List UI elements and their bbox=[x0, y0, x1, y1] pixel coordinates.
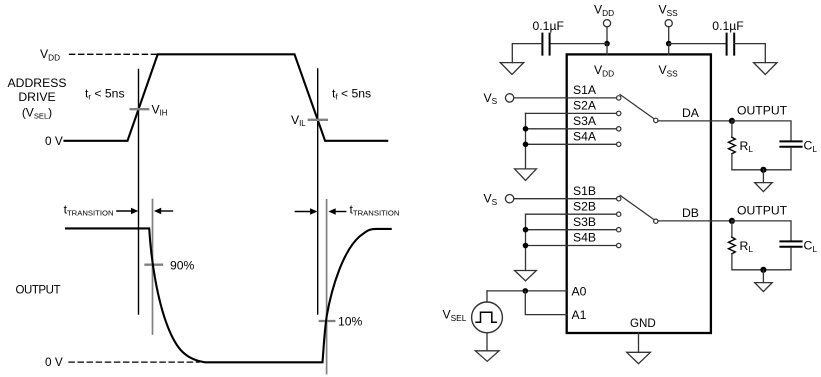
node VIL tick bbox=[309, 119, 327, 121]
svg-text:tTRANSITION: tTRANSITION bbox=[350, 202, 400, 217]
svg-text:90%: 90% bbox=[170, 258, 195, 272]
wire output ground lead B bbox=[762, 270, 764, 283]
wire right cap right lead bbox=[734, 44, 765, 63]
wire left cap left lead bbox=[512, 44, 542, 63]
node junction S3A bus bbox=[523, 126, 529, 132]
source VSEL pulse glyph bbox=[476, 312, 496, 322]
svg-text:S1A: S1A bbox=[573, 83, 597, 97]
svg-text:0 V: 0 V bbox=[45, 134, 63, 148]
svg-text:DRIVE: DRIVE bbox=[18, 90, 55, 104]
wire left timing marker line bbox=[138, 70, 140, 315]
source VSEL circle bbox=[472, 302, 503, 333]
svg-text:S4A: S4A bbox=[573, 130, 597, 144]
op-amp U1 multiplexer IC body bbox=[567, 54, 711, 333]
node 10% tick bbox=[320, 320, 335, 322]
wire S2B bbox=[526, 213, 617, 215]
node switch contact S4A bbox=[617, 142, 621, 146]
svg-text:OUTPUT: OUTPUT bbox=[16, 285, 61, 297]
node switch contact S3A bbox=[617, 127, 621, 131]
wire right gray transition marker line bbox=[326, 200, 328, 374]
wire VDD terminal to rail bbox=[606, 27, 608, 44]
node VDD terminal circle bbox=[603, 20, 610, 27]
wire output ground lead A bbox=[762, 170, 764, 183]
node switch common DA circle bbox=[654, 118, 658, 122]
svg-text:CL: CL bbox=[804, 239, 818, 254]
svg-text:0.1µF: 0.1µF bbox=[533, 19, 564, 33]
svg-text:VSS: VSS bbox=[659, 3, 679, 18]
svg-text:A1: A1 bbox=[572, 308, 587, 322]
node switch contact S3B bbox=[617, 228, 621, 232]
wire DA to output bbox=[658, 120, 732, 122]
node output ground junction A bbox=[760, 167, 766, 173]
svg-text:RL: RL bbox=[740, 239, 754, 254]
arrow right pair left-pointing bbox=[335, 211, 346, 213]
wire RL top lead A bbox=[731, 121, 733, 137]
ground VSEL bbox=[475, 351, 499, 362]
svg-text:VDD: VDD bbox=[594, 3, 614, 18]
wire CL bottom lead B bbox=[790, 248, 792, 270]
node switch contact S4B bbox=[617, 243, 621, 247]
node VS terminal circle (A) bbox=[505, 94, 513, 102]
ground bus A bbox=[515, 169, 537, 181]
svg-text:CL: CL bbox=[804, 139, 818, 154]
node switch contact S2A bbox=[617, 111, 621, 115]
node 90% tick bbox=[146, 264, 163, 266]
svg-text:0.1µF: 0.1µF bbox=[712, 19, 743, 33]
node VS terminal circle (B) bbox=[505, 195, 513, 203]
wire DB to output bbox=[658, 220, 732, 222]
node junction S3B bus bbox=[523, 227, 529, 233]
wire right timing marker line bbox=[317, 69, 319, 314]
node VSS terminal circle bbox=[665, 20, 672, 27]
wire S3A bbox=[526, 128, 617, 130]
node junction S4A bus bbox=[523, 142, 529, 148]
wire address drive waveform trapezoid bbox=[65, 54, 388, 141]
wire output waveform bbox=[66, 228, 391, 362]
resistor RL (A) bbox=[729, 137, 736, 154]
svg-text:S3B: S3B bbox=[573, 215, 596, 229]
svg-text:tTRANSITION: tTRANSITION bbox=[64, 202, 114, 217]
wire switch arm B bbox=[620, 195, 654, 219]
svg-text:VDD: VDD bbox=[594, 63, 614, 78]
wire VSEL source top lead bbox=[486, 291, 488, 302]
node switch contact S2B bbox=[617, 212, 621, 216]
svg-text:OUTPUT: OUTPUT bbox=[737, 203, 788, 217]
svg-text:tr < 5ns: tr < 5ns bbox=[85, 86, 125, 101]
svg-text:S2A: S2A bbox=[573, 99, 597, 113]
wire output top rail B bbox=[732, 221, 791, 241]
svg-text:A0: A0 bbox=[572, 284, 587, 298]
svg-text:ADDRESS: ADDRESS bbox=[8, 76, 67, 90]
resistor RL (B) bbox=[729, 237, 736, 254]
svg-text:OUTPUT: OUTPUT bbox=[737, 103, 788, 117]
wire VSS junction into IC bbox=[668, 44, 670, 55]
wire left cap right lead bbox=[550, 43, 607, 45]
node output junction A bbox=[729, 118, 735, 124]
ground right top bbox=[754, 63, 777, 75]
ground bus B bbox=[515, 271, 537, 281]
wire 0V dashed reference line (output) bbox=[69, 361, 199, 363]
capacitor C1 0.1uF left bbox=[542, 34, 549, 55]
wire VDD dashed reference line bbox=[70, 53, 163, 55]
svg-text:S3A: S3A bbox=[573, 114, 597, 128]
svg-text:VS: VS bbox=[484, 192, 498, 207]
wire A0 junction to A1 bbox=[525, 291, 566, 315]
svg-text:10%: 10% bbox=[338, 315, 363, 329]
svg-text:S2B: S2B bbox=[573, 199, 596, 213]
node output junction B bbox=[729, 218, 735, 224]
svg-text:S4B: S4B bbox=[573, 230, 596, 244]
wire VDD junction into IC bbox=[606, 44, 608, 55]
arrow left pair left-pointing bbox=[161, 210, 173, 212]
wire VS to S1A bbox=[514, 97, 617, 99]
wire output top rail A bbox=[732, 121, 791, 141]
capacitor C2 0.1uF right bbox=[727, 34, 735, 55]
wire VSEL source bottom lead bbox=[486, 333, 488, 351]
wire switch arm A bbox=[620, 95, 654, 119]
svg-text:(VSEL): (VSEL) bbox=[22, 106, 52, 121]
capacitor CL (A) bbox=[780, 141, 801, 146]
ground output A bbox=[755, 183, 773, 192]
svg-text:DA: DA bbox=[682, 106, 700, 120]
wire left gray transition marker line bbox=[152, 200, 154, 335]
wire VSS terminal to rail bbox=[668, 27, 670, 44]
wire S4A bbox=[526, 143, 617, 145]
ground left top bbox=[500, 63, 523, 75]
svg-text:S1B: S1B bbox=[573, 184, 596, 198]
wire GND lead bbox=[638, 333, 640, 352]
node VDD junction bbox=[604, 41, 610, 47]
wire RL bottom lead B bbox=[732, 254, 791, 270]
node junction S4B bus bbox=[523, 243, 529, 249]
wire S4B bbox=[526, 245, 617, 247]
svg-text:VDD: VDD bbox=[40, 47, 60, 62]
svg-text:VS: VS bbox=[484, 91, 498, 106]
node switch contact S1B bbox=[617, 197, 621, 201]
wire CL bottom lead A bbox=[790, 148, 792, 170]
node A0 junction bbox=[523, 288, 529, 294]
svg-text:GND: GND bbox=[630, 317, 656, 330]
ground GND bbox=[627, 352, 651, 363]
wire ground bus B bbox=[525, 214, 527, 270]
node VSS junction bbox=[666, 41, 672, 47]
node switch common DB circle bbox=[654, 219, 658, 223]
wire RL top lead B bbox=[731, 221, 733, 237]
wire RL bottom lead A bbox=[732, 154, 791, 170]
wire right cap left lead bbox=[669, 43, 727, 45]
wire S3B bbox=[526, 229, 617, 231]
capacitor CL (B) bbox=[780, 241, 801, 246]
svg-text:tf < 5ns: tf < 5ns bbox=[332, 86, 371, 101]
arrow right pair right-pointing bbox=[295, 211, 310, 213]
node VIH tick bbox=[131, 108, 149, 110]
svg-text:0 V: 0 V bbox=[45, 355, 63, 369]
svg-text:VSEL: VSEL bbox=[443, 308, 467, 323]
wire A0 bbox=[487, 290, 567, 292]
node output ground junction B bbox=[760, 267, 766, 273]
svg-text:VIL: VIL bbox=[291, 113, 306, 128]
svg-text:DB: DB bbox=[682, 206, 699, 220]
wire S2A bbox=[526, 112, 617, 114]
node switch contact S1A bbox=[617, 96, 621, 100]
svg-text:RL: RL bbox=[740, 139, 754, 154]
ground output B bbox=[755, 283, 773, 292]
arrow left pair right-pointing bbox=[117, 210, 132, 212]
wire VS to S1B bbox=[514, 198, 617, 200]
wire ground bus A bbox=[525, 113, 527, 168]
svg-text:VIH: VIH bbox=[152, 102, 168, 117]
svg-text:VSS: VSS bbox=[659, 63, 679, 78]
